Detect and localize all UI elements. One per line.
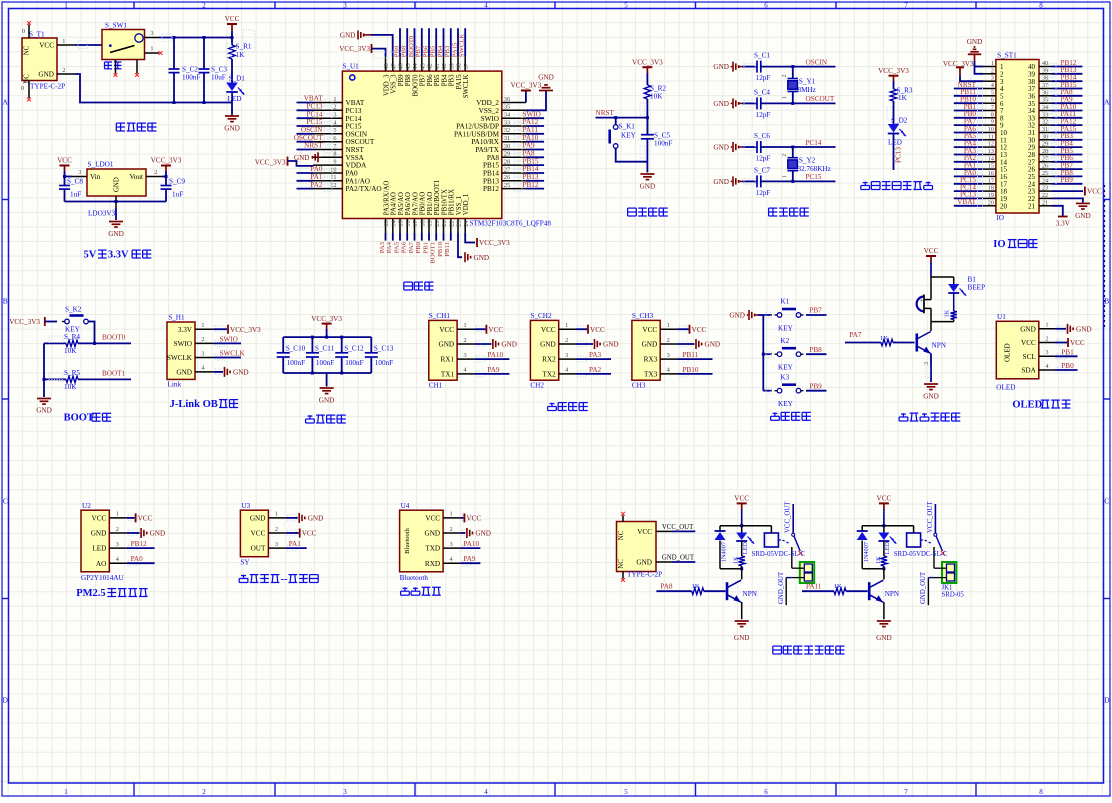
svg-text:K2: K2: [780, 337, 789, 345]
svg-text:3: 3: [116, 541, 119, 548]
svg-text:VCC: VCC: [138, 515, 153, 523]
svg-text:RX3: RX3: [644, 356, 658, 364]
svg-text:PB13: PB13: [483, 177, 499, 185]
svg-text:PA10: PA10: [523, 134, 539, 142]
svg-text:PA15: PA15: [456, 74, 463, 89]
svg-text:10K: 10K: [650, 93, 663, 101]
svg-text:VCC_OUT: VCC_OUT: [662, 524, 694, 531]
svg-text:PA11/USB/DM: PA11/USB/DM: [454, 130, 500, 138]
svg-text:PB10: PB10: [683, 366, 699, 374]
svg-text:PA1: PA1: [310, 173, 323, 181]
svg-text:2: 2: [450, 526, 453, 533]
svg-text:PA3: PA3: [589, 351, 602, 359]
svg-text:NPN: NPN: [885, 590, 900, 598]
svg-text:S_C11: S_C11: [315, 344, 335, 352]
svg-text:VCC: VCC: [642, 326, 657, 334]
svg-text:PA9: PA9: [523, 142, 536, 150]
svg-text:PB5: PB5: [430, 45, 437, 57]
svg-text:RXD: RXD: [425, 560, 440, 568]
svg-text:PB0/AO: PB0/AO: [420, 192, 427, 216]
svg-text:24: 24: [1042, 178, 1048, 184]
svg-text:S_R2: S_R2: [650, 85, 666, 93]
svg-text:S_H1: S_H1: [168, 314, 185, 322]
svg-text:LED: LED: [884, 542, 891, 555]
svg-text:S_CH1: S_CH1: [429, 312, 451, 320]
svg-text:SRD-05VDC-SL-C: SRD-05VDC-SL-C: [894, 551, 948, 558]
svg-text:20: 20: [434, 220, 441, 226]
svg-text:2: 2: [201, 336, 204, 343]
svg-text:22: 22: [1042, 193, 1048, 199]
svg-text:NC: NC: [618, 530, 625, 540]
svg-text:3: 3: [333, 112, 336, 119]
svg-text:GND: GND: [1020, 325, 1036, 333]
svg-text:GND_OUT: GND_OUT: [920, 571, 927, 604]
svg-text:1: 1: [565, 322, 568, 329]
svg-text:2: 2: [464, 337, 467, 344]
svg-text:GND: GND: [475, 530, 491, 538]
svg-text:PB9: PB9: [1061, 176, 1074, 184]
svg-text:19: 19: [427, 220, 434, 226]
svg-text:35: 35: [1042, 98, 1048, 104]
svg-text:GND: GND: [474, 254, 490, 262]
svg-text:1: 1: [62, 38, 65, 45]
svg-text:1: 1: [150, 45, 153, 52]
svg-text:S_C13: S_C13: [374, 344, 394, 352]
svg-text:33: 33: [504, 119, 510, 126]
svg-text:GND: GND: [308, 515, 324, 523]
svg-text:S_R4: S_R4: [64, 333, 80, 341]
svg-text:24: 24: [463, 219, 470, 226]
svg-text:13: 13: [988, 149, 994, 155]
svg-text:PA10: PA10: [487, 351, 503, 359]
svg-text:NRST: NRST: [596, 109, 615, 117]
svg-text:PB12: PB12: [131, 540, 147, 548]
svg-text:KEY: KEY: [778, 325, 794, 333]
svg-text:PC13: PC13: [346, 107, 362, 115]
svg-text:U4: U4: [401, 502, 410, 510]
svg-text:S_D2: S_D2: [891, 117, 908, 125]
svg-text:PA12/USB/DP: PA12/USB/DP: [456, 123, 499, 131]
svg-text:3: 3: [343, 2, 347, 10]
svg-text:GND: GND: [713, 178, 729, 186]
svg-text:3.3V: 3.3V: [1056, 220, 1071, 228]
svg-text:PA8: PA8: [487, 154, 500, 162]
svg-text:PA9: PA9: [463, 555, 476, 563]
svg-text:1: 1: [64, 788, 68, 796]
svg-text:S_R1: S_R1: [236, 43, 252, 51]
svg-text:GND: GND: [540, 341, 556, 349]
svg-text:21: 21: [1028, 202, 1036, 210]
svg-text:SWIO: SWIO: [523, 110, 541, 118]
svg-text:3: 3: [565, 352, 568, 359]
svg-text:26: 26: [504, 174, 510, 181]
svg-text:Vin: Vin: [90, 173, 101, 181]
svg-text:RX1: RX1: [441, 356, 455, 364]
svg-text:PC14: PC14: [346, 115, 362, 123]
svg-text:SY: SY: [240, 559, 250, 567]
svg-text:8: 8: [1039, 2, 1043, 10]
svg-text:0: 0: [21, 85, 24, 92]
svg-text:21: 21: [441, 220, 448, 226]
svg-text:2: 2: [62, 67, 65, 74]
svg-text:NPN: NPN: [932, 342, 947, 350]
svg-text:PB13: PB13: [523, 173, 539, 181]
svg-text:15: 15: [988, 164, 994, 170]
svg-text:D: D: [1104, 696, 1110, 705]
svg-text:SWCLK: SWCLK: [167, 354, 193, 362]
svg-text:PA9/TX: PA9/TX: [475, 146, 500, 154]
svg-text:PB11: PB11: [683, 351, 699, 359]
svg-text:VCC_OUT: VCC_OUT: [785, 501, 792, 533]
svg-text:GND: GND: [36, 407, 52, 415]
svg-text:NRST: NRST: [304, 142, 323, 150]
svg-text:2: 2: [1045, 335, 1048, 342]
svg-text:VDD_3: VDD_3: [383, 74, 390, 96]
svg-text:2: 2: [333, 104, 336, 111]
svg-text:VCC: VCC: [541, 326, 556, 334]
svg-text:3: 3: [343, 788, 347, 796]
svg-text:16: 16: [988, 171, 994, 177]
svg-text:PB5: PB5: [434, 74, 441, 86]
svg-text:32: 32: [1042, 120, 1048, 126]
svg-text:PA15: PA15: [451, 42, 458, 57]
svg-text:11: 11: [330, 174, 336, 181]
svg-text:VBAT: VBAT: [346, 99, 365, 107]
svg-text:PA6/AO: PA6/AO: [405, 192, 412, 215]
svg-text:VCC_OUT: VCC_OUT: [927, 501, 934, 533]
svg-text:48: 48: [383, 63, 390, 69]
svg-text:PB4: PB4: [437, 45, 444, 57]
svg-text:K1: K1: [780, 298, 789, 306]
svg-text:CH3: CH3: [632, 382, 646, 390]
svg-text:TXD: TXD: [425, 545, 440, 553]
svg-text:4: 4: [991, 83, 994, 89]
svg-text:SCL: SCL: [1023, 353, 1036, 361]
svg-text:PA2: PA2: [589, 366, 602, 374]
svg-text:KEY: KEY: [621, 132, 637, 140]
svg-text:100nF: 100nF: [287, 359, 305, 367]
svg-text:37: 37: [1042, 83, 1048, 89]
svg-text:TX1: TX1: [441, 371, 455, 379]
svg-text:13: 13: [383, 220, 390, 226]
svg-text:18: 18: [419, 220, 426, 226]
svg-text:5: 5: [333, 127, 336, 134]
svg-text:GND: GND: [713, 100, 729, 108]
svg-text:C: C: [3, 497, 8, 506]
svg-text:PB7: PB7: [809, 307, 822, 315]
svg-text:VCC: VCC: [466, 515, 481, 523]
svg-text:7: 7: [904, 788, 908, 796]
svg-text:100nF: 100nF: [375, 359, 393, 367]
svg-text:VBAT: VBAT: [304, 95, 323, 103]
svg-text:Link: Link: [168, 381, 182, 389]
svg-text:VSS_3: VSS_3: [391, 74, 398, 94]
svg-text:PB8: PB8: [809, 346, 822, 354]
svg-text:1N4007: 1N4007: [721, 542, 728, 562]
svg-text:GND: GND: [1076, 325, 1092, 333]
svg-text:BOOT1: BOOT1: [102, 369, 126, 377]
svg-text:PM2.5: PM2.5: [76, 588, 105, 599]
svg-text:GND: GND: [1075, 212, 1091, 220]
svg-text:PA4: PA4: [386, 241, 393, 253]
svg-text:VDD_2: VDD_2: [476, 99, 499, 107]
svg-text:1K: 1K: [944, 309, 951, 317]
svg-text:S_CH3: S_CH3: [632, 312, 654, 320]
svg-text:JK1: JK1: [942, 584, 953, 591]
svg-text:PB7: PB7: [420, 74, 427, 86]
svg-text:7: 7: [904, 2, 908, 10]
svg-text:PB1: PB1: [422, 242, 429, 254]
svg-text:VSS_1: VSS_1: [456, 196, 463, 215]
svg-text:PA9: PA9: [487, 366, 500, 374]
svg-text:PB10: PB10: [437, 241, 444, 257]
svg-text:GND: GND: [439, 341, 455, 349]
svg-text:GND: GND: [713, 144, 729, 152]
svg-text:3: 3: [991, 76, 994, 82]
svg-text:VCC_3V3: VCC_3V3: [632, 58, 663, 66]
svg-text:1uF: 1uF: [172, 191, 183, 199]
svg-text:5: 5: [991, 90, 994, 96]
svg-text:S_Y2: S_Y2: [799, 157, 816, 165]
svg-text:19: 19: [988, 193, 994, 199]
svg-text:25: 25: [504, 182, 510, 189]
svg-text:GND: GND: [713, 63, 729, 71]
svg-text:A: A: [1104, 98, 1110, 107]
svg-text:PA7: PA7: [849, 331, 862, 339]
svg-text:Bluetooth: Bluetooth: [404, 527, 411, 553]
svg-text:27: 27: [1042, 156, 1048, 162]
svg-text:S_R5: S_R5: [64, 369, 80, 377]
svg-text:GND: GND: [150, 530, 166, 538]
svg-text:2: 2: [154, 169, 157, 176]
svg-text:22: 22: [448, 220, 455, 226]
svg-text:41: 41: [434, 63, 441, 69]
svg-text:28: 28: [504, 159, 510, 166]
svg-text:3: 3: [667, 352, 670, 359]
svg-text:2: 2: [565, 337, 568, 344]
svg-text:3: 3: [450, 541, 453, 548]
svg-text:6: 6: [764, 2, 768, 10]
svg-text:PC15: PC15: [346, 123, 362, 131]
svg-text:20: 20: [1000, 202, 1008, 210]
svg-text:BOOT0: BOOT0: [412, 74, 419, 97]
svg-text:3: 3: [275, 541, 278, 548]
svg-text:VCC: VCC: [302, 530, 317, 538]
svg-text:PB6: PB6: [422, 45, 429, 57]
svg-text:PA5: PA5: [393, 241, 400, 253]
svg-text:PB11: PB11: [444, 242, 451, 257]
svg-text:PA3: PA3: [379, 241, 386, 253]
svg-text:2: 2: [202, 2, 206, 10]
svg-text:OSCOUT: OSCOUT: [294, 134, 323, 142]
svg-text:3: 3: [924, 362, 930, 365]
svg-text:GND: GND: [705, 341, 721, 349]
svg-text:K3: K3: [780, 373, 789, 381]
svg-text:PB1/AO: PB1/AO: [427, 192, 434, 216]
svg-text:2: 2: [275, 526, 278, 533]
svg-text:VCC: VCC: [692, 326, 707, 334]
svg-text:6: 6: [764, 788, 768, 796]
svg-text:PB1: PB1: [1061, 348, 1074, 356]
svg-text:29: 29: [504, 151, 510, 158]
svg-text:S_D1: S_D1: [229, 75, 246, 83]
svg-text:VDDA: VDDA: [346, 162, 368, 170]
svg-text:PA8: PA8: [660, 583, 673, 591]
svg-text:PB14: PB14: [483, 170, 499, 178]
svg-text:1: 1: [782, 175, 788, 178]
svg-text:10uF: 10uF: [211, 74, 226, 82]
svg-text:KEY: KEY: [778, 364, 794, 372]
svg-text:TYPE-C-2P: TYPE-C-2P: [30, 83, 65, 91]
svg-text:PA1/AO: PA1/AO: [346, 177, 371, 185]
svg-text:12pF: 12pF: [756, 154, 771, 162]
svg-text:GND: GND: [640, 183, 656, 191]
svg-text:TX3: TX3: [644, 371, 658, 379]
svg-text:GND: GND: [538, 74, 554, 82]
svg-text:Vout: Vout: [130, 173, 143, 181]
svg-text:GND: GND: [224, 125, 240, 133]
svg-text:PA10/RX: PA10/RX: [471, 138, 500, 146]
svg-text:S_C8: S_C8: [67, 178, 83, 186]
svg-text:8: 8: [1039, 788, 1043, 796]
svg-text:37: 37: [463, 63, 470, 69]
svg-text:39: 39: [1042, 68, 1048, 74]
svg-text:PA11: PA11: [523, 126, 539, 134]
svg-text:33: 33: [1042, 112, 1048, 118]
svg-text:34: 34: [504, 112, 511, 119]
svg-text:100nF: 100nF: [345, 359, 363, 367]
svg-text:VSSA: VSSA: [346, 154, 365, 162]
svg-text:31: 31: [504, 135, 510, 142]
svg-text:GND: GND: [734, 634, 750, 642]
svg-text:10K: 10K: [64, 383, 77, 391]
svg-text:21: 21: [1042, 200, 1048, 206]
svg-text:VSS_2: VSS_2: [479, 107, 500, 115]
svg-text:32: 32: [504, 127, 510, 134]
svg-text:10K: 10K: [64, 347, 77, 355]
svg-text:3: 3: [201, 350, 204, 357]
svg-text:S_C10: S_C10: [286, 344, 306, 352]
svg-text:7: 7: [991, 105, 994, 111]
svg-text:GND: GND: [250, 515, 266, 523]
svg-text:VCC_3V3: VCC_3V3: [511, 82, 542, 90]
svg-text:3: 3: [1045, 349, 1048, 356]
svg-text:PA11: PA11: [806, 583, 822, 591]
svg-text:1: 1: [667, 322, 670, 329]
svg-text:46: 46: [398, 63, 405, 69]
svg-text:OLED: OLED: [996, 383, 1015, 391]
svg-text:PB15: PB15: [483, 162, 499, 170]
svg-text:43: 43: [419, 63, 426, 69]
svg-text:GND: GND: [38, 71, 54, 79]
svg-text:29: 29: [1042, 142, 1048, 148]
svg-text:44: 44: [412, 62, 419, 69]
svg-text:SWCLK: SWCLK: [463, 74, 470, 98]
svg-text:LED: LED: [888, 139, 902, 147]
svg-text:PB0: PB0: [1061, 362, 1074, 370]
svg-text:OLED: OLED: [1012, 400, 1042, 411]
svg-text:GND: GND: [642, 341, 658, 349]
svg-text:PB15: PB15: [523, 157, 539, 165]
svg-text:NPN: NPN: [743, 590, 758, 598]
svg-text:PA3/RX/AO: PA3/RX/AO: [383, 181, 390, 216]
svg-text:100nF: 100nF: [654, 140, 672, 148]
svg-text:2: 2: [202, 788, 206, 796]
svg-text:BOOT0: BOOT0: [102, 334, 126, 342]
svg-text:B1: B1: [968, 276, 977, 284]
svg-text:GND_OUT: GND_OUT: [778, 571, 785, 604]
svg-text:S_ST1: S_ST1: [997, 51, 1017, 59]
svg-text:Bluetooth: Bluetooth: [400, 574, 429, 582]
svg-text:IO: IO: [993, 239, 1005, 250]
svg-text:2: 2: [782, 154, 788, 157]
svg-text:B: B: [3, 297, 8, 306]
svg-text:NC: NC: [24, 45, 31, 55]
svg-text:OSCIN: OSCIN: [346, 130, 368, 138]
svg-text:SWCLK: SWCLK: [220, 350, 246, 358]
svg-text:S_C12: S_C12: [344, 344, 364, 352]
svg-text:VCC: VCC: [734, 495, 749, 503]
svg-text:BOOT0: BOOT0: [408, 35, 415, 57]
svg-text:VCC: VCC: [1021, 339, 1036, 347]
svg-text:12pF: 12pF: [756, 111, 771, 119]
svg-text:1: 1: [991, 61, 994, 67]
svg-text:2: 2: [116, 526, 119, 533]
svg-text:0: 0: [22, 28, 25, 35]
svg-text:35: 35: [504, 104, 510, 111]
svg-text:PA4/AO: PA4/AO: [391, 192, 398, 215]
svg-text:OSCOUT: OSCOUT: [346, 138, 375, 146]
svg-text:PA6: PA6: [401, 241, 408, 253]
svg-text:PC14: PC14: [307, 110, 323, 118]
svg-text:PB6: PB6: [427, 74, 434, 86]
svg-text:OSCOUT: OSCOUT: [806, 95, 835, 103]
svg-text:9: 9: [991, 120, 994, 126]
svg-text:39: 39: [448, 63, 455, 69]
svg-text:GND: GND: [636, 559, 652, 567]
svg-text:VCC_3V3: VCC_3V3: [9, 318, 40, 326]
svg-text:11: 11: [988, 134, 994, 140]
svg-text:S_T1: S_T1: [29, 31, 45, 39]
svg-text:4: 4: [484, 2, 488, 10]
svg-text:12: 12: [330, 182, 336, 189]
svg-text:VCC: VCC: [488, 326, 503, 334]
svg-text:VCC: VCC: [877, 495, 892, 503]
svg-text:1: 1: [275, 511, 278, 518]
svg-text:2: 2: [782, 75, 788, 78]
svg-text:VCC: VCC: [924, 247, 939, 255]
svg-text:VCC: VCC: [425, 515, 440, 523]
svg-text:PA0: PA0: [131, 555, 144, 563]
svg-text:--: --: [281, 574, 288, 585]
svg-text:GND: GND: [319, 397, 335, 405]
svg-text:VCC: VCC: [637, 528, 652, 536]
svg-text:GND: GND: [176, 369, 192, 377]
svg-text:CH1: CH1: [429, 382, 443, 390]
svg-text:VCC: VCC: [57, 157, 72, 165]
svg-text:PB0: PB0: [415, 241, 422, 253]
svg-text:GND: GND: [114, 177, 121, 192]
svg-text:25: 25: [1042, 171, 1048, 177]
svg-text:S_C6: S_C6: [754, 132, 770, 140]
svg-text:8: 8: [991, 112, 994, 118]
svg-text:1K: 1K: [692, 583, 700, 590]
svg-text:S_LDO1: S_LDO1: [88, 161, 114, 169]
svg-text:S_C2: S_C2: [182, 66, 198, 74]
svg-text:PB14: PB14: [523, 165, 539, 173]
svg-text:47: 47: [390, 63, 397, 69]
svg-text:S_C1: S_C1: [754, 52, 770, 60]
